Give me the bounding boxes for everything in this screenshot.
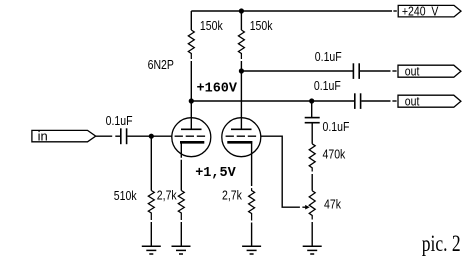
wire: +240V top rail xyxy=(191,10,392,12)
triode V1a envelope circle xyxy=(172,118,211,157)
wire: stub before lower out flag xyxy=(392,100,396,102)
wire: right tube grid feedback, right then down then to pot wiper xyxy=(261,136,306,207)
capacitor C 0.1uF lower output, left plate xyxy=(354,93,356,109)
wire: upper out line from right anode node xyxy=(241,70,353,72)
resistor R 150k #1 (left anode load) xyxy=(188,30,194,59)
wire: right tube cathode lead xyxy=(251,144,253,187)
svg-text:150k: 150k xyxy=(250,18,273,33)
resistor R 150k #2 (right anode load) xyxy=(238,30,244,59)
junction node dot: lower out / feedback branch xyxy=(309,98,314,103)
ground symbol: left 2,7k xyxy=(172,246,191,254)
wire: right 2,7k to ground xyxy=(251,223,253,246)
wire: lower cap to out flag xyxy=(361,100,390,102)
capacitor C 0.1uF lower output, right plate xyxy=(360,93,362,109)
svg-text:510k: 510k xyxy=(114,188,137,203)
wire: input line from in flag xyxy=(96,135,113,137)
wire: input cap to grid node and left tube grid xyxy=(127,135,171,137)
svg-text:+240 V: +240 V xyxy=(402,4,439,19)
triode V1b cathode bar xyxy=(227,141,252,144)
triode V1b envelope circle xyxy=(222,118,261,157)
wire: left 2,7k to ground xyxy=(180,222,182,246)
svg-text:2,7k: 2,7k xyxy=(157,187,177,202)
triode V1a cathode bar xyxy=(180,141,204,144)
svg-text:0.1uF: 0.1uF xyxy=(106,113,133,128)
capacitor C 0.1uF upper output, right plate xyxy=(358,63,360,79)
capacitor C 0.1uF feedback, bottom plate xyxy=(305,122,320,124)
wire: left tube cathode lead xyxy=(180,144,182,191)
ground symbol: right 2,7k xyxy=(242,246,261,254)
resistor R 2,7k right cathode xyxy=(249,188,255,220)
junction node dot: input grid / 510k xyxy=(149,134,154,139)
junction node dot: rail / R150k#2 xyxy=(239,8,244,13)
wire: stub before input cap xyxy=(115,135,120,137)
triode V1a plate bar xyxy=(181,128,202,130)
potentiometer wiper arrowhead xyxy=(305,205,310,210)
connector flag: out (upper) xyxy=(398,65,461,77)
svg-text:+1,5V: +1,5V xyxy=(195,166,236,181)
svg-text:in: in xyxy=(38,129,48,144)
wire: R 510k to ground xyxy=(150,222,152,246)
wire: R 150k #1 bottom to left anode node xyxy=(190,61,192,101)
capacitor C 0.1uF input, left plate xyxy=(120,128,122,144)
wire: R 150k #2 bottom to right anode node xyxy=(240,61,242,71)
ground symbol: pot 47k xyxy=(303,246,322,254)
junction node dot: left anode / lower out xyxy=(189,98,194,103)
svg-text:pic. 2: pic. 2 xyxy=(422,232,461,257)
wire: lead from rail to R 150k #1 xyxy=(190,11,192,30)
svg-text:out: out xyxy=(405,94,420,109)
wire: lower node down to feedback cap xyxy=(311,101,313,117)
wire: rail stub before +240V flag xyxy=(393,10,396,12)
wire: left tube anode lead xyxy=(190,101,192,129)
resistor R 2,7k left cathode xyxy=(178,191,184,221)
capacitor C 0.1uF input, right plate xyxy=(126,128,128,144)
wire: lower out line from left anode node xyxy=(191,100,354,102)
connector flag: +240 V xyxy=(398,5,461,17)
capacitor C 0.1uF upper output, left plate xyxy=(352,63,354,79)
svg-text:out: out xyxy=(405,64,420,79)
resistor R 470k xyxy=(309,144,315,172)
potentiometer R 47k xyxy=(309,191,315,220)
wire: right tube anode lead xyxy=(240,71,242,129)
wire: feedback cap to R 470k xyxy=(311,123,313,143)
triode V1a grid (dashed) xyxy=(175,135,206,137)
svg-text:+160V: +160V xyxy=(197,82,238,97)
junction node dot: right anode / upper out xyxy=(239,68,244,73)
wire: grid node down to R 510k xyxy=(150,136,152,190)
wire: stub before upper out flag xyxy=(392,70,396,72)
wire: lead from rail to R 150k #2 xyxy=(240,11,242,30)
svg-text:470k: 470k xyxy=(323,147,346,162)
connector flag: in xyxy=(32,130,96,141)
connector flag: out (lower) xyxy=(398,95,461,107)
svg-text:0.1uF: 0.1uF xyxy=(323,119,350,134)
wire: R 470k to pot 47k xyxy=(311,174,313,191)
wire: upper cap to out flag xyxy=(360,70,391,72)
capacitor C 0.1uF feedback, top plate xyxy=(305,117,320,119)
triode V1b plate bar xyxy=(231,128,252,130)
triode V1b grid (dashed) xyxy=(226,135,257,137)
wire: pot 47k to ground xyxy=(311,222,313,246)
svg-text:47k: 47k xyxy=(324,196,341,211)
ground symbol: 510k xyxy=(142,246,161,254)
svg-text:6N2P: 6N2P xyxy=(148,57,174,72)
svg-text:2,7k: 2,7k xyxy=(222,187,242,202)
resistor R 510k (grid leak) xyxy=(148,191,154,221)
svg-text:150k: 150k xyxy=(200,18,223,33)
svg-text:0.1uF: 0.1uF xyxy=(315,49,342,64)
svg-text:0.1uF: 0.1uF xyxy=(314,78,341,93)
